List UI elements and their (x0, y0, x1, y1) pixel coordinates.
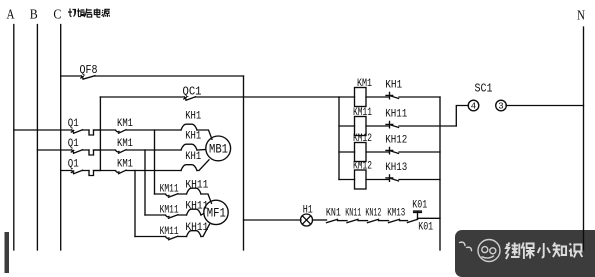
svg-text:KH11: KH11 (185, 222, 208, 234)
wire coil to KH row 3 (366, 151, 389, 153)
wire coil-branch left bus (338, 97, 340, 180)
wire MF1 row2 into motor (201, 214, 204, 216)
svg-text:N: N (577, 7, 585, 22)
svg-text:KM12: KM12 (353, 161, 372, 173)
wire K01 out (418, 217, 441, 219)
relay contact K01 (408, 219, 418, 222)
breaker QF8 (81, 76, 95, 80)
contact KN12 (368, 219, 379, 222)
svg-text:Q1: Q1 (68, 138, 79, 150)
phase line A (13, 25, 15, 251)
wire MB1 row3 into motor (197, 160, 209, 171)
contactor KM1 contact row 1 (116, 130, 126, 134)
wire notch to KM1 row 3 (94, 170, 116, 172)
fuse notch row 2 (89, 150, 100, 155)
wire MF1 phase row 2 (145, 214, 187, 216)
fuse notch row 1 (89, 130, 100, 135)
svg-text:KH11: KH11 (185, 180, 208, 192)
wire notch to KM1 row 2 (94, 149, 116, 151)
wire KH out row 1 (399, 96, 440, 98)
svg-text:3: 3 (498, 102, 503, 112)
wire bus stub coil row 3 (339, 151, 355, 153)
svg-text:A: A (7, 7, 15, 22)
relay contact KH row 2 (386, 121, 399, 127)
relay contact KH row 1 (386, 92, 399, 98)
wire dropper row1 to MF1 (154, 130, 156, 194)
svg-text:KH12: KH12 (385, 135, 407, 147)
relay contact KH row 3 (386, 147, 399, 153)
terminal 3 of SC1 (496, 100, 507, 111)
contactor KM11 contact row 3 (166, 236, 178, 240)
wire segment after KN1 (338, 220, 348, 222)
phase line C (60, 25, 62, 251)
fuse notch row 3 (89, 171, 100, 176)
disconnector Q1 row 2 (71, 150, 82, 154)
svg-text:H1: H1 (303, 205, 313, 217)
contactor KM1 contact row 3 (116, 170, 126, 174)
svg-text:MF1: MF1 (207, 206, 226, 221)
phase line B (36, 25, 38, 251)
svg-text:KM11: KM11 (353, 107, 372, 119)
wire notch to KM1 row 1 (94, 129, 116, 131)
svg-text:Q1: Q1 (68, 158, 79, 170)
wire QF8 bus (61, 75, 244, 77)
wire QC1 bus (100, 96, 354, 98)
svg-text:KM1: KM1 (117, 138, 133, 150)
wire changeover dropper x243.5 (243, 76, 245, 250)
wire dropper row3 to MF1 (134, 171, 136, 237)
svg-text:KH11: KH11 (385, 109, 407, 121)
svg-text:QC1: QC1 (183, 85, 202, 99)
wire bus stub coil row 2 (339, 125, 355, 127)
watermark dark box (455, 230, 595, 277)
wire segment after KN12 (379, 220, 389, 222)
wire segment after KN11 (358, 220, 368, 222)
thermal element KH1 row 3 (181, 165, 197, 171)
wire MB1 row2 into motor (197, 149, 206, 152)
wire contact3 to N (506, 105, 583, 107)
svg-text:C: C (53, 7, 61, 22)
lamp H1 (301, 214, 313, 226)
wire QC1 dropper (99, 97, 101, 171)
contactor KM11 contact row 1 (166, 194, 178, 198)
svg-text:KH1: KH1 (185, 131, 201, 143)
watermark left bar (5, 232, 10, 273)
svg-text:MB1: MB1 (209, 142, 228, 157)
wire KH out row 3 (399, 151, 440, 153)
svg-text:KH1: KH1 (185, 151, 201, 163)
watermark logo (478, 240, 500, 262)
svg-text:KM12: KM12 (353, 133, 372, 145)
wire KH out row 2 (399, 125, 456, 127)
wire coil to KH row 1 (366, 96, 389, 98)
coil KM row 3 (355, 143, 367, 162)
terminal 4 of SC1 (468, 100, 479, 111)
contact KM13 (389, 219, 400, 222)
caption 切换后电源 (switched supply) (68, 9, 110, 18)
wire MB1 phase row 1 (14, 129, 181, 131)
wire MB1 row1 into motor (197, 130, 212, 139)
wire MF1 row1 into motor (201, 194, 212, 203)
wire right bus x440 (439, 97, 441, 250)
wire KH11 riser to contact 4 (456, 106, 468, 127)
wire coil to KH row 2 (366, 125, 389, 127)
wire MB1 phase row 3 (61, 170, 181, 172)
svg-text:KN11: KN11 (345, 207, 361, 219)
svg-text:Q1: Q1 (68, 118, 79, 130)
wire MB1 phase row 2 (37, 149, 181, 151)
plunger K01 (414, 211, 422, 220)
watermark quote marks (460, 242, 472, 251)
wire lamp to contacts (313, 219, 327, 221)
thermal element KH11 row 3 (187, 231, 202, 237)
wire MF1 row3 into motor (201, 224, 210, 236)
svg-text:4: 4 (471, 102, 476, 112)
svg-text:KN12: KN12 (365, 207, 381, 219)
svg-text:KM13: KM13 (387, 207, 405, 219)
contact KN1 (327, 219, 338, 222)
svg-text:B: B (30, 7, 38, 22)
coil KM row 4 (355, 170, 367, 189)
contactor KM11 contact row 2 (166, 215, 178, 219)
contactor QC1 (184, 97, 196, 101)
contact KN11 (347, 219, 358, 222)
svg-text:KM11: KM11 (160, 205, 179, 217)
svg-text:K01: K01 (418, 221, 433, 233)
wire dropper row2 to MF1 (144, 150, 146, 215)
svg-text:SC1: SC1 (475, 82, 493, 96)
thermal element KH11 row 2 (187, 209, 202, 215)
svg-text:KM1: KM1 (357, 78, 372, 90)
wire bus stub coil row 4 (339, 179, 355, 181)
coil KM row 2 (355, 117, 367, 136)
thermal element KH1 row 2 (181, 144, 197, 150)
wire H1 row left (244, 219, 302, 221)
svg-text:KN1: KN1 (326, 207, 341, 219)
svg-text:KM11: KM11 (160, 226, 179, 238)
wire coil to KH row 4 (366, 179, 389, 181)
contactor KM1 contact row 2 (116, 150, 126, 154)
svg-text:QF8: QF8 (80, 63, 98, 77)
wire MF1 phase row 1 (155, 193, 187, 195)
coil KM row 1 (355, 88, 367, 107)
neutral line N (583, 27, 585, 250)
wire MF1 phase row 3 (135, 236, 187, 238)
motor MF1 (204, 200, 228, 224)
svg-text:KH1: KH1 (185, 111, 201, 123)
svg-text:KM11: KM11 (160, 184, 179, 196)
svg-text:KH13: KH13 (385, 162, 407, 174)
relay contact KH row 4 (386, 175, 399, 181)
svg-text:K01: K01 (412, 200, 427, 212)
disconnector Q1 row 3 (71, 170, 82, 174)
svg-text:KM1: KM1 (117, 118, 133, 130)
svg-text:KM1: KM1 (117, 158, 133, 170)
svg-text:KH11: KH11 (185, 201, 208, 213)
wire KH out row 4 (399, 179, 440, 181)
watermark text 继保小知识 (506, 243, 583, 260)
motor MB1 (206, 136, 231, 161)
wire KM13 to K01 (400, 220, 408, 222)
svg-text:KH1: KH1 (385, 80, 402, 92)
thermal element KH1 row 1 (181, 124, 197, 130)
disconnector Q1 row 1 (71, 130, 82, 134)
thermal element KH11 row 1 (187, 188, 202, 194)
